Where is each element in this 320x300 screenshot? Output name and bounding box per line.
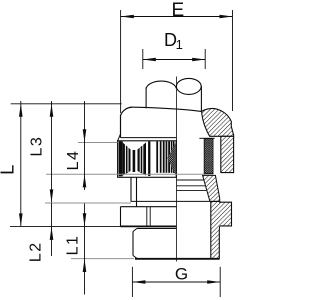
dim L1 line xyxy=(84,204,86,295)
cap top-left corner arc xyxy=(121,107,134,115)
knurl cell1 dark right quad xyxy=(138,143,147,176)
arrow G right xyxy=(207,280,220,284)
cap dome section hatched (right) xyxy=(202,108,234,136)
arrow L4 top (outside, pointing down) xyxy=(83,129,87,142)
svg-text:L2: L2 xyxy=(27,241,44,262)
arrow L1 top (outside, pointing down) xyxy=(83,213,87,226)
svg-text:G: G xyxy=(175,265,188,284)
dim L vertical line xyxy=(20,101,22,226)
arrow D1 left xyxy=(143,58,156,62)
svg-text:L: L xyxy=(0,165,18,175)
left dims: top extension line xyxy=(11,103,122,105)
knurl band outline xyxy=(118,141,177,178)
arrow L3 top xyxy=(50,104,54,117)
cable left edge xyxy=(145,88,147,109)
hex top line xyxy=(121,206,177,208)
knurl cell1 dark left quad xyxy=(123,143,131,176)
ext line gray hex top xyxy=(45,202,131,204)
dimension G extension right xyxy=(219,267,221,297)
knurl facet bar xyxy=(148,141,150,176)
knurl left edge bar xyxy=(119,141,123,176)
svg-text:L3: L3 xyxy=(29,136,46,157)
hex bottom line xyxy=(121,225,177,227)
dimension E extension line left xyxy=(120,10,122,113)
thread left edge xyxy=(132,232,134,256)
cap skirt lip edge xyxy=(130,177,132,201)
dimension D1 extension line right xyxy=(204,49,206,69)
hex facet line 1 xyxy=(146,207,148,227)
thread bottom line xyxy=(135,258,219,260)
dimension G line xyxy=(132,281,220,283)
arrow L1 bottom (outside, pointing up) xyxy=(83,259,87,272)
dimension E extension line right xyxy=(232,10,234,111)
dimension D1 extension line left xyxy=(142,49,144,69)
arrow L4 bottom (outside, pointing up) xyxy=(83,174,87,187)
ext line gray thread bottom xyxy=(71,258,134,260)
svg-text:L1: L1 xyxy=(65,235,82,256)
knurl right bars xyxy=(156,141,174,173)
hex left edge xyxy=(120,207,122,227)
internal line a xyxy=(176,179,204,181)
cable right edge xyxy=(200,86,202,112)
cap skirt wall section hatched (right) xyxy=(221,136,234,172)
body neck edge xyxy=(136,177,138,206)
arrow L top xyxy=(19,104,23,117)
cable break hump xyxy=(146,81,176,88)
dim L3 vertical line xyxy=(51,101,53,202)
body section hatched hex+thread (right) xyxy=(211,201,232,258)
cap flare to knurl xyxy=(118,134,121,141)
centerline xyxy=(176,77,178,262)
internal line c xyxy=(176,190,206,192)
ext line gray seal bottom (L4 bottom) xyxy=(46,173,204,175)
svg-text:1: 1 xyxy=(176,37,183,52)
arrow D1 right xyxy=(192,58,205,62)
knurl cell1 white separators xyxy=(125,145,142,174)
cap top face line xyxy=(134,107,202,111)
dimension E line xyxy=(121,16,233,18)
svg-text:L4: L4 xyxy=(65,150,82,171)
arrow L3 bottom xyxy=(50,189,54,202)
cable break ellipse xyxy=(176,78,201,94)
dim L4 vertical line + tails xyxy=(84,101,86,190)
knurl cell1 center bar xyxy=(133,150,136,172)
thread top line xyxy=(137,227,176,229)
arrow L bottom xyxy=(19,213,23,226)
seal top flange line xyxy=(199,137,214,139)
knurl right speckle wedge xyxy=(168,142,177,176)
thread bottom chamfer xyxy=(133,256,138,259)
arrow E left xyxy=(121,15,134,19)
seal insert cross-hatched xyxy=(204,139,213,174)
ext line black hex bottom xyxy=(10,225,121,227)
svg-text:E: E xyxy=(172,0,185,21)
dimension D1 line xyxy=(143,59,205,61)
arrow E right xyxy=(220,15,233,19)
cap left edge xyxy=(120,115,122,137)
body cone hatched (right) xyxy=(203,175,220,201)
cap skirt bottom line across xyxy=(131,200,211,202)
internal line b xyxy=(176,185,205,187)
dim L2 tail line xyxy=(51,203,53,256)
cap bottom line left half xyxy=(121,137,177,139)
dimension G extension left xyxy=(131,267,133,297)
ext line gray knurl-top (L4 top) xyxy=(78,142,118,144)
arrow G left xyxy=(132,280,145,284)
thread top chamfer xyxy=(133,228,137,231)
arrow L2 bottom (outside, pointing up) xyxy=(50,227,54,240)
hex facet line 2 xyxy=(149,207,151,227)
